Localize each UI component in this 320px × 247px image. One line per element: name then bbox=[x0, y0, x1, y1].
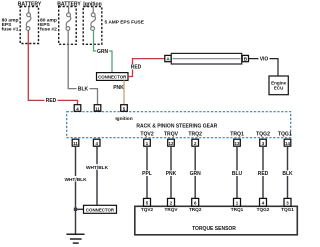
svg-text:BLK: BLK bbox=[282, 171, 293, 177]
svg-text:11: 11 bbox=[73, 141, 78, 146]
svg-text:VIO: VIO bbox=[260, 56, 269, 62]
wire PNK from connector to pin 5 bbox=[113, 80, 124, 105]
svg-text:TRQ1: TRQ1 bbox=[231, 207, 244, 212]
pin 4 (bottom) bbox=[93, 139, 100, 146]
EPS main fuse terminal A bbox=[165, 55, 171, 61]
wire RED from F1 to pin 4 bbox=[28, 44, 77, 106]
svg-text:RED: RED bbox=[131, 65, 142, 71]
svg-text:14: 14 bbox=[285, 141, 290, 146]
svg-text:12: 12 bbox=[169, 141, 174, 146]
fuse F3 5 amp EPS fuse bbox=[83, 7, 102, 45]
wire PPL pin1 to TQV2 bbox=[140, 146, 154, 198]
wire PNK pin12 to TRQV bbox=[164, 146, 178, 198]
pin 13 (bottom) bbox=[234, 139, 241, 146]
svg-text:PPL: PPL bbox=[142, 171, 152, 177]
pin 11 (bottom) bbox=[72, 139, 79, 146]
pin 4 (top) bbox=[74, 105, 81, 112]
svg-text:fuse #2: fuse #2 bbox=[40, 27, 57, 33]
svg-text:CONNECTOR: CONNECTOR bbox=[86, 208, 115, 213]
svg-text:TRQ2: TRQ2 bbox=[188, 131, 202, 137]
EPS main fuse terminal B bbox=[242, 55, 248, 61]
svg-text:PNK: PNK bbox=[166, 171, 177, 177]
svg-text:TQG2: TQG2 bbox=[256, 131, 270, 137]
wire WHT/BLK from pin 11 to ground bbox=[64, 146, 88, 234]
sensor pin 1 bbox=[234, 198, 241, 206]
svg-text:11: 11 bbox=[95, 106, 100, 111]
wire BLK from F2 to pin 11 bbox=[68, 44, 97, 105]
torque sensor box bbox=[135, 206, 297, 235]
wire VIO from B to Engine ECU bbox=[249, 56, 279, 76]
svg-text:TRQ2: TRQ2 bbox=[189, 207, 202, 212]
ground bbox=[66, 234, 84, 243]
sensor pin 6 bbox=[192, 198, 199, 206]
wire RED pin3 to TQG2 bbox=[256, 146, 270, 198]
svg-text:GRN: GRN bbox=[97, 49, 109, 55]
connector C1 bbox=[97, 73, 129, 81]
fuse F2 80 amp EPS fuse #2 bbox=[59, 7, 76, 45]
wire RED from connector to EPS fuse A bbox=[128, 59, 165, 77]
svg-text:TRQV: TRQV bbox=[164, 131, 179, 137]
fuse F2 value label bbox=[40, 17, 57, 32]
wire junction to connector C2 bbox=[74, 208, 84, 211]
svg-text:TQG2: TQG2 bbox=[257, 207, 270, 212]
svg-text:TRQ1: TRQ1 bbox=[230, 131, 244, 137]
fuse F1 value label bbox=[2, 17, 19, 32]
svg-text:TORQUE SENSOR: TORQUE SENSOR bbox=[192, 226, 236, 232]
Engine ECU U1 bbox=[269, 76, 288, 95]
svg-text:BLU: BLU bbox=[232, 171, 243, 177]
sensor pin 3 bbox=[284, 198, 291, 206]
svg-text:TRQV: TRQV bbox=[164, 207, 178, 212]
svg-text:RACK & PINION STEERING GEAR: RACK & PINION STEERING GEAR bbox=[136, 123, 217, 129]
svg-text:RED: RED bbox=[258, 171, 269, 177]
pin 3 (bottom) bbox=[260, 139, 267, 146]
svg-text:BLK: BLK bbox=[78, 86, 89, 92]
rack & pinion steering gear box bbox=[67, 112, 291, 138]
svg-text:RED: RED bbox=[46, 98, 57, 104]
svg-text:TQG1: TQG1 bbox=[278, 131, 292, 137]
pin 1 (bottom) bbox=[144, 139, 151, 146]
wire GRN from F3 to connector bbox=[94, 44, 113, 72]
pin 14 (bottom) bbox=[284, 139, 291, 146]
svg-text:fuse #1: fuse #1 bbox=[2, 27, 19, 33]
svg-text:TQV2: TQV2 bbox=[141, 207, 154, 212]
wire BLU pin13 to TRQ1 bbox=[230, 146, 244, 198]
svg-text:13: 13 bbox=[235, 141, 240, 146]
sensor pin 4 bbox=[260, 198, 267, 206]
svg-text:PNK: PNK bbox=[113, 85, 124, 91]
sensor pin 5 bbox=[144, 198, 151, 206]
svg-text:CONNECTOR: CONNECTOR bbox=[98, 75, 127, 80]
wire WHT/BLK from pin 4 to connector C2 bbox=[85, 146, 109, 205]
svg-text:TQV2: TQV2 bbox=[140, 131, 153, 137]
svg-text:TQG1: TQG1 bbox=[281, 207, 294, 212]
svg-text:WHT/BLK: WHT/BLK bbox=[64, 177, 87, 183]
sensor pin 2 bbox=[168, 198, 175, 206]
svg-text:ECU: ECU bbox=[274, 86, 284, 91]
svg-text:GRN: GRN bbox=[190, 171, 202, 177]
svg-text:Ignition: Ignition bbox=[115, 116, 132, 122]
fuse F1 80 amp EPS fuse #1 bbox=[20, 7, 38, 44]
pin 2 (bottom) bbox=[192, 139, 199, 146]
wire BLK pin14 to TQG1 bbox=[281, 146, 295, 198]
svg-text:5 AMP EPS FUSE: 5 AMP EPS FUSE bbox=[105, 20, 145, 26]
pin 5 (top) bbox=[121, 105, 128, 112]
svg-text:WHT/BLK: WHT/BLK bbox=[86, 165, 109, 171]
wire GRN pin2 to TRQ2 bbox=[188, 146, 202, 198]
EPS main fuse body bbox=[171, 53, 241, 64]
pin 11 (top) bbox=[94, 105, 101, 112]
connector C2 bbox=[84, 205, 117, 213]
pin 12 (bottom) bbox=[168, 139, 175, 146]
